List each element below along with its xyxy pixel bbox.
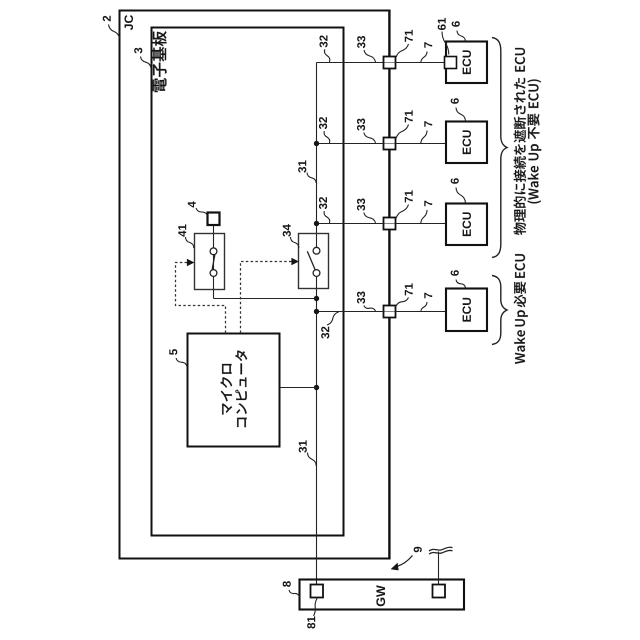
GW connector (right) [433, 585, 446, 598]
label 33 row 4 [357, 292, 365, 304]
label マイクロコンピュータ [220, 364, 232, 415]
switch SW41 box [195, 234, 225, 290]
wire row 2: branch 32/33 from node 31 to bus and wire 7 to ECU [317, 143, 447, 145]
label 71 row 4 [405, 283, 413, 295]
arrowhead into switch 34 [291, 258, 299, 266]
junction box JC outer enclosure (2) [120, 11, 390, 559]
label 7 row 1 [424, 42, 432, 47]
label 6 row 4 [451, 270, 459, 276]
arrowhead into switch 41 [187, 259, 195, 267]
gateway box GW (8) [300, 580, 465, 610]
label 32 row 3 [319, 197, 327, 209]
bus tap connectors (33/71 squares) [384, 57, 396, 69]
label 7 row 4 [424, 293, 432, 298]
switch SW41 top contact [210, 248, 217, 255]
microcomputer block (5) [188, 334, 280, 447]
label 6 row1 [452, 21, 460, 27]
caption (Wake Up 不要 ECU) [527, 80, 541, 204]
connector 61 on ECU row1 [445, 57, 457, 69]
dashed control line from microcomputer to switch 34 [241, 262, 292, 334]
ECU box row 3 (6) [446, 204, 487, 246]
wire from component 4 through switch 41 contacts [213, 225, 215, 299]
wire 31 vertical (lower segment, switch 34 bottom contact down to GW) [316, 273, 318, 585]
label 41 [178, 224, 186, 236]
label 33 row 3 [357, 199, 365, 211]
brace grouping ECU rows 1-3 [492, 38, 507, 258]
dashed control line from microcomputer to switch 41 [176, 263, 226, 334]
label 電子基板 [152, 31, 167, 92]
label 32 row 4 (below wire) [321, 327, 329, 339]
label 6 row 2 [451, 98, 459, 104]
switch SW34 arm (open) [307, 251, 315, 269]
label 32 row 1 [319, 35, 327, 47]
switch SW34 bottom contact [313, 270, 320, 277]
wire from switch 41 output to node on wire 31 [214, 298, 317, 300]
label 31 (lower) [299, 440, 307, 452]
label 6 row 3 [451, 178, 459, 184]
switch SW34 top contact [313, 247, 320, 254]
switch SW34 box [299, 234, 329, 289]
label 81 [307, 616, 315, 628]
label 71 row 1 [405, 30, 413, 42]
electronic board inner enclosure (3) [152, 28, 344, 536]
label JC [124, 15, 133, 30]
GW connector 81 (left) [311, 585, 324, 598]
arrow from label 9 to GW [398, 556, 413, 567]
label 8 [283, 581, 291, 587]
label 33 row 1 [357, 36, 365, 48]
label 61 [438, 18, 446, 30]
wire row 1: branch 32/33 from node 31 to bus and wire 7 to ECU [317, 62, 446, 64]
bus wire (thick right edge of JC) [388, 10, 390, 560]
label 34 [283, 224, 291, 236]
switch SW41 bottom contact [210, 270, 217, 277]
component 4 (sensor square) [208, 213, 220, 226]
label 7 row 2 [424, 121, 432, 126]
ECU box row 2 (6) [446, 122, 487, 164]
wire 31 vertical (upper segment, row1 down to switch 34 top contact) [316, 63, 318, 251]
brace grouping ECU row 4 [492, 276, 507, 345]
wire from microcomputer to node 31 [280, 387, 317, 389]
wire stub from right GW connector (cut) [438, 552, 440, 585]
label 33 row 2 [357, 119, 365, 131]
switch SW41 arm (closed) [212, 254, 215, 270]
ECU box row 4 (6) [446, 289, 487, 332]
wire row 3: branch 32/33 from node 31 to bus and wire 7 to ECU [317, 223, 447, 225]
label 71 row 2 [405, 110, 413, 122]
label 7 row 3 [424, 201, 432, 206]
wire row 4: branch 32/33 from node 31 to bus and wire 7 to ECU [317, 311, 447, 313]
label 32 row 2 [319, 117, 327, 129]
label GW [376, 585, 385, 606]
label 3 [134, 48, 142, 54]
cut-wire squiggle (9) [429, 547, 453, 551]
label 31 (upper) [298, 160, 306, 172]
caption 物理的に接続を遮断された ECU [514, 48, 526, 235]
label 5 [169, 349, 177, 355]
label 9 [414, 547, 422, 553]
ECU box row 1 (6) [446, 42, 487, 84]
label 2 [103, 16, 111, 22]
junction node dots on wire 31 [314, 141, 319, 146]
label 71 row 3 [405, 190, 413, 202]
caption Wake Up 必要 ECU [514, 254, 528, 364]
label 4 [188, 201, 196, 207]
